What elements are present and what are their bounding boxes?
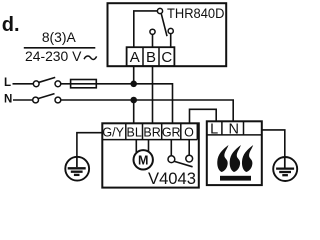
switch contact circle N2 (55, 97, 61, 103)
wire G/Y to earth (77, 133, 102, 157)
svg-text:V4043: V4043 (148, 169, 196, 188)
svg-text:24-230 V: 24-230 V (25, 48, 82, 64)
svg-text:O: O (184, 125, 194, 139)
svg-text:N: N (4, 94, 12, 106)
valve terminal dividers (125, 123, 127, 139)
flame 2 (230, 145, 241, 172)
thermostat THR840D box (108, 3, 227, 66)
AC tilde symbol (84, 56, 97, 60)
svg-text:d.: d. (2, 14, 20, 36)
wire L to GR terminal (61, 84, 173, 124)
wire GR to switch contact (170, 140, 172, 156)
fuse F1 (71, 80, 97, 88)
valve terminal row bottom (102, 139, 197, 141)
contact circle above B (150, 29, 155, 34)
valve switch contact O (186, 155, 193, 162)
motor M1 (134, 150, 153, 169)
flame 1 (217, 145, 228, 172)
wire O to boiler L connector (190, 109, 217, 122)
wire BL stub (133, 100, 135, 123)
wire B to BR (152, 66, 154, 124)
wire contact C stub (170, 34, 172, 48)
junction dot N/BL (130, 97, 137, 104)
boiler terminal row bottom (207, 134, 262, 136)
switch lever (thermostat) (161, 13, 167, 36)
hearth bar (220, 176, 251, 181)
fraction bar (24, 47, 96, 49)
junction dot L/A (130, 81, 137, 88)
svg-text:N: N (229, 121, 239, 137)
wire A stub (133, 66, 135, 84)
wire contact B stub (152, 34, 154, 47)
svg-text:BR: BR (143, 125, 160, 139)
svg-text:B: B (146, 49, 156, 66)
boiler terminal dividers (221, 121, 223, 135)
flame 3 (242, 145, 253, 172)
boiler box (207, 121, 262, 185)
switch pivot contact circle (157, 8, 162, 13)
terminal block A B C (127, 47, 175, 66)
wire boiler earth (262, 130, 285, 158)
wire A to switch pivot (134, 11, 158, 47)
svg-text:L: L (4, 77, 11, 89)
valve switch lever (174, 161, 192, 166)
wire L lead-in (13, 83, 34, 85)
svg-text:M: M (138, 153, 148, 167)
valve V4043 box (102, 123, 199, 187)
svg-text:THR840D: THR840D (167, 6, 224, 22)
switch contact circle L2 (55, 81, 61, 87)
valve switch contact GR (168, 156, 175, 163)
svg-text:GR: GR (162, 125, 181, 139)
wire N to boiler N terminal (61, 100, 233, 121)
svg-text:G/Y: G/Y (102, 125, 124, 139)
svg-text:A: A (130, 49, 140, 66)
svg-text:8(3)A: 8(3)A (42, 29, 77, 45)
svg-text:L: L (210, 121, 218, 137)
switch contact circle L1 (33, 81, 39, 87)
switch lever L (39, 77, 55, 82)
contact circle above C (168, 28, 173, 33)
wire BR to motor (148, 140, 150, 153)
switch lever N (38, 94, 54, 99)
wire BL to motor (135, 140, 137, 154)
earth symbol left (65, 157, 89, 181)
earth symbol right (273, 157, 297, 181)
wire O to switch contact (188, 140, 190, 156)
switch contact circle N1 (33, 97, 39, 103)
svg-text:BL: BL (127, 125, 142, 139)
svg-text:C: C (161, 49, 172, 66)
wire N lead-in (13, 99, 33, 101)
